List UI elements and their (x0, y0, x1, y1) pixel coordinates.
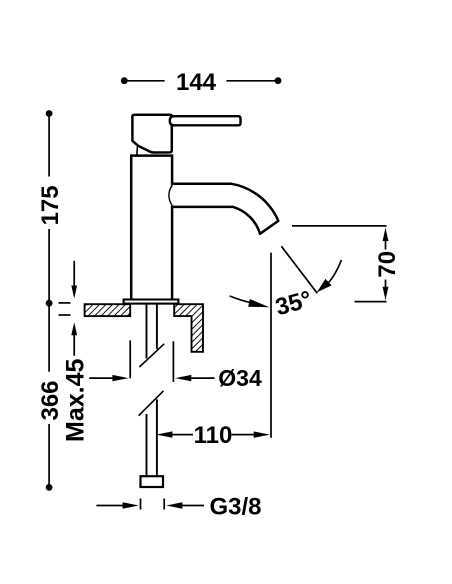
faucet handle head (132, 115, 171, 153)
dimension 70 bottom extension line (355, 301, 387, 303)
G3/8 tick right (163, 499, 165, 510)
dimension 110 left arrow (156, 431, 172, 437)
Max.45 tick deck bottom (59, 314, 71, 316)
dimension G3/8 left arrow (96, 505, 124, 507)
Max.45 upper arrow (73, 261, 75, 287)
deck right L-section (174, 304, 203, 352)
dimension 70 vertical line with arrows (383, 228, 389, 241)
svg-text:110: 110 (194, 422, 233, 449)
svg-text:144: 144 (176, 69, 217, 96)
svg-text:366: 366 (37, 380, 64, 420)
svg-text:Max.45: Max.45 (62, 359, 90, 442)
35 degree leader arrow (230, 296, 251, 303)
svg-text:G3/8: G3/8 (210, 494, 262, 521)
pipe break slash 1 (139, 344, 164, 367)
handle collar line (136, 146, 139, 154)
dimension 70 top extension line (292, 225, 387, 227)
dimension 110 right arrow (232, 434, 255, 436)
supply pipe upper segment (146, 304, 148, 358)
faucet base flange (124, 300, 179, 304)
supply pipe lower segment (146, 414, 148, 476)
35 degree inclined line (281, 246, 317, 293)
faucet spout outline (171, 184, 278, 234)
dimension Ø34 left arrow (89, 377, 114, 379)
svg-text:70: 70 (374, 251, 401, 278)
dimension Ø34 right arrow (175, 375, 191, 381)
faucet body left edge (130, 156, 133, 299)
faucet lever (170, 116, 241, 125)
deck left slab (85, 304, 131, 316)
faucet body right edge lower (171, 206, 174, 299)
svg-text:Ø34: Ø34 (218, 365, 262, 391)
dimension 144 line (126, 80, 277, 82)
spout root cap arc (169, 185, 173, 206)
Max.45 tick deck top (59, 302, 71, 304)
supply end fitting (141, 476, 164, 487)
35 degree arc arrow (324, 260, 342, 288)
dimension 144 end dots (121, 77, 128, 84)
pipe break slash 2 (139, 391, 164, 416)
Max.45 lower arrow (71, 322, 77, 335)
vertical dimension line 175/366 (48, 114, 50, 488)
long vertical extension line (spout outlet axis) (270, 253, 272, 438)
faucet body top edge (130, 154, 173, 157)
faucet body right edge upper (171, 156, 174, 185)
G3/8 tick left (140, 499, 142, 510)
svg-text:175: 175 (37, 185, 64, 225)
dimension Ø34 extension lines (129, 340, 131, 378)
dimension G3/8 right arrow (166, 502, 182, 508)
dimension dots (46, 110, 53, 117)
